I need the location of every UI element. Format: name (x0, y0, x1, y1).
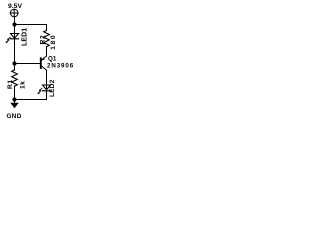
label 180 (50, 34, 57, 50)
node A junction (LED1/R1/base) (12, 61, 16, 65)
node top-left junction (12, 22, 16, 26)
svg-text:LED1: LED1 (22, 28, 29, 46)
label LED1 (22, 28, 29, 46)
label Q1 (48, 56, 57, 63)
resistor R2 (44, 31, 50, 47)
wire top rail corner down to R2 (46, 25, 48, 31)
wire base of Q1 (15, 63, 41, 65)
node ground junction (12, 97, 16, 101)
wire left rail to LED1 (14, 25, 16, 39)
wire node A to R1 (14, 64, 16, 71)
label 1k (20, 80, 27, 89)
label LED2 (49, 79, 56, 97)
svg-text:GND: GND (7, 113, 22, 120)
resistor R1 (12, 70, 18, 86)
svg-text:180: 180 (50, 34, 57, 50)
LED LED1 (5, 34, 18, 44)
wire bottom rail (15, 99, 47, 101)
svg-text:2N3906: 2N3906 (47, 62, 74, 69)
wire R1 to ground node (14, 86, 16, 99)
wire LED2 to bottom rail (46, 91, 48, 100)
label GND (7, 113, 22, 120)
wire R2 to Q1 emitter (46, 47, 48, 56)
wire top rail horizontal (15, 24, 47, 26)
wire power to top rail (14, 17, 16, 25)
label 2N3906 (47, 62, 74, 69)
wire Q1 collector to LED2 (46, 70, 48, 90)
power flag 9.5V label (8, 3, 22, 10)
label R1 (7, 79, 14, 89)
power symbol +9.5V circle-plus (10, 9, 18, 17)
svg-text:R2: R2 (40, 35, 47, 45)
transistor Q1 (41, 56, 47, 70)
svg-text:1k: 1k (20, 80, 27, 89)
svg-text:R1: R1 (7, 79, 14, 89)
LED LED2 (37, 85, 50, 94)
wire LED1 to node A (14, 39, 16, 64)
svg-text:LED2: LED2 (49, 79, 56, 97)
label R2 (40, 35, 47, 45)
ground (10, 103, 18, 108)
wire to GND symbol (14, 100, 16, 104)
